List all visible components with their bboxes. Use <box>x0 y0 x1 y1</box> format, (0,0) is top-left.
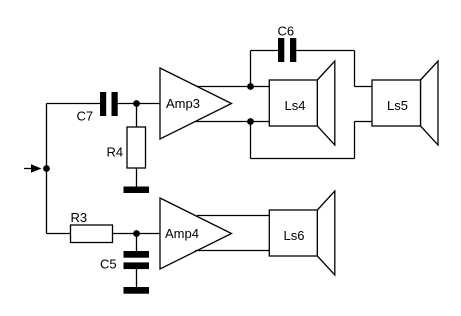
wire Amp4 top output to Ls6 <box>197 215 270 217</box>
svg-text:R4: R4 <box>107 145 124 160</box>
svg-text:C5: C5 <box>100 257 117 272</box>
node junction dot top output <box>247 83 254 90</box>
node junction dot bottom output <box>247 118 254 125</box>
svg-text:R3: R3 <box>71 210 88 225</box>
wire top from bus to C7 <box>47 103 101 105</box>
svg-text:Ls4: Ls4 <box>285 98 306 113</box>
resistor R4 <box>127 127 146 168</box>
wire dot down to R4 <box>136 104 138 128</box>
wire stub into Ls5 bottom <box>355 121 373 123</box>
svg-text:Ls5: Ls5 <box>387 98 408 113</box>
wire C6 branch horizontal left <box>251 50 279 52</box>
wire R3 to Amp4 <box>113 233 161 235</box>
wire bottom loop right vertical up <box>354 122 356 159</box>
node junction dot at C7/R4 <box>133 100 140 107</box>
wire bottom loop horizontal <box>251 158 355 160</box>
wire stub into Ls5 top <box>355 86 373 88</box>
ground below R4 <box>124 187 150 194</box>
wire left vertical bus <box>46 104 48 234</box>
wire bus to R3 <box>47 233 71 235</box>
wire down from bottom dot <box>250 122 252 159</box>
capacitor C6 <box>278 38 284 62</box>
wire up from top dot to C6 branch <box>250 51 252 87</box>
input arrow <box>31 164 42 172</box>
loudspeaker Ls4 <box>317 61 335 145</box>
wire C7 to Amp3 input <box>118 103 161 105</box>
wire dot down to C5 <box>136 234 138 252</box>
loudspeaker Ls5 <box>421 61 439 145</box>
resistor R3 <box>71 225 113 243</box>
svg-text:Amp4: Amp4 <box>165 226 199 241</box>
loudspeaker Ls6 <box>317 191 335 275</box>
capacitor C5 <box>124 251 150 258</box>
wire C5 to ground <box>136 269 138 287</box>
svg-text:C7: C7 <box>77 109 94 124</box>
svg-text:Amp3: Amp3 <box>166 96 200 111</box>
svg-text:Ls6: Ls6 <box>284 228 305 243</box>
wire C6 branch horizontal right <box>296 50 355 52</box>
ground below C5 <box>124 287 150 294</box>
wire R4 to ground <box>136 168 138 187</box>
svg-text:C6: C6 <box>278 24 295 39</box>
wire Amp3 top output to Ls4 <box>197 86 270 88</box>
node input junction dot <box>43 165 50 172</box>
input stub wire <box>24 168 32 170</box>
capacitor C7 <box>100 92 106 116</box>
op-amp Amp4 <box>160 198 232 269</box>
wire Amp3 bottom output to Ls4 <box>195 121 270 123</box>
wire Amp4 bottom output to Ls6 <box>195 250 270 252</box>
node junction dot at R3/C5 <box>133 230 140 237</box>
wire C6 branch right vertical down <box>354 51 356 87</box>
op-amp Amp3 <box>160 68 232 139</box>
